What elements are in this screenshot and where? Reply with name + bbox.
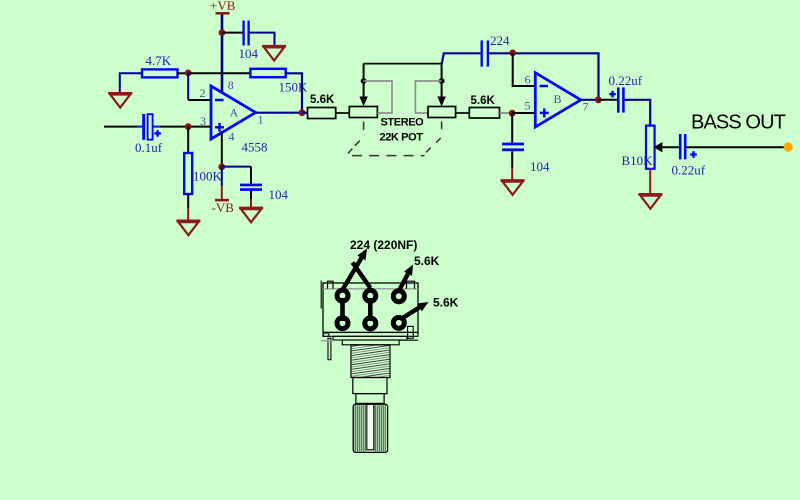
pot terminal lug top-left (337, 290, 348, 301)
pot terminal lug bottom-middle (365, 318, 376, 329)
node junction J7 (509, 50, 516, 57)
wire gray loop P2 (415, 81, 441, 113)
op-amp A minus symbol (215, 99, 224, 102)
svg-text:22K POT: 22K POT (380, 132, 424, 144)
capacitor C5 224 (481, 40, 490, 66)
ground for R1 (108, 93, 132, 107)
wire C4 to ground (511, 151, 513, 180)
svg-text:100K: 100K (193, 169, 223, 184)
pot drawing crimp band (323, 288, 418, 290)
op-amp U1A triangle (211, 86, 256, 139)
power -VB label (212, 200, 235, 215)
svg-text:104: 104 (530, 159, 550, 174)
wire gray stub R5 to J6 (500, 112, 512, 114)
wire R1 left to ground (120, 73, 142, 92)
wire op-amp B output (581, 99, 599, 101)
svg-text:4: 4 (229, 130, 235, 144)
svg-text:5.6K: 5.6K (471, 95, 496, 107)
pot drawing top tabs (328, 281, 415, 288)
wire gray loop P1 (364, 81, 392, 113)
label 224 (220NF) (350, 238, 417, 252)
svg-text:BASS OUT: BASS OUT (691, 111, 786, 133)
svg-text:B: B (554, 92, 562, 106)
pot drawing knurled shaft (353, 404, 387, 452)
power +VB bar (216, 12, 230, 15)
wire op-amp A output (256, 112, 302, 114)
pin 3 label (200, 114, 206, 128)
pin 6 label (525, 73, 531, 87)
pot terminal lug bottom-left (337, 318, 348, 329)
wire C5 to corner (489, 53, 598, 100)
svg-text:0.22uf: 0.22uf (609, 73, 643, 88)
wire J4 to C3 (222, 167, 251, 184)
ground for R3 (176, 221, 200, 235)
C2 plus symbol (154, 130, 161, 137)
wire J1 to C1 (222, 32, 243, 34)
pot drawing threaded bushing (351, 341, 391, 384)
value label 150K (279, 80, 309, 95)
pot terminal lug top-right (393, 291, 404, 302)
C6 plus symbol (609, 91, 616, 98)
wire J6 down to C4 (511, 113, 513, 143)
potentiometer P1 body (349, 107, 377, 118)
wire C7 to output terminal (687, 146, 789, 148)
capacitor C1 104 (242, 21, 249, 46)
node junction J2 (185, 70, 192, 77)
node junction J5 (299, 109, 306, 116)
svg-text:7: 7 (583, 100, 589, 114)
value label B10K (622, 153, 654, 168)
value label 0.1uf (135, 140, 163, 155)
capacitor C4 104 (502, 143, 524, 152)
svg-text:0.1uf: 0.1uf (135, 140, 163, 155)
node junction J4 (218, 163, 225, 170)
wire C3 to ground (250, 191, 252, 208)
node wiper junction P2 (439, 78, 445, 84)
value label 0.22uf for C6 (609, 73, 643, 88)
pot drawing body (323, 283, 418, 332)
node junction J8 (595, 96, 602, 103)
pot drawing stub right (399, 339, 418, 341)
value label 104 for C1 (239, 46, 259, 61)
ground for C1 (262, 46, 286, 60)
wire J2 to R2 150K (188, 72, 250, 74)
value label 104 for C4 (530, 159, 550, 174)
pot drawing shaft step (356, 394, 384, 404)
label 5.6K lower (433, 296, 459, 310)
svg-text:104: 104 (239, 46, 259, 61)
potentiometer P2 wiper arrow (437, 64, 445, 107)
potentiometer P2 body (428, 107, 456, 118)
label BASS OUT (691, 111, 786, 133)
pot drawing anti-rotation pin (328, 338, 331, 359)
op-amp A plus symbol (215, 123, 224, 132)
power -VB bar (215, 199, 229, 202)
pot terminal bars (343, 298, 371, 321)
arrow to 5.6K from top-right lug (399, 265, 413, 291)
op-amp U1B triangle (535, 73, 581, 127)
resistor R3 100K (184, 153, 192, 194)
wire +VB to pin 8 of U1 (221, 15, 224, 93)
label 22K POT (380, 132, 424, 144)
ground for C3 (239, 208, 263, 222)
resistor R5 5.6K (469, 108, 499, 119)
svg-text:5.6K: 5.6K (433, 296, 459, 310)
wire feedback diagonal from bus (442, 53, 481, 64)
pot drawing side tab line (320, 281, 322, 309)
wire J5 to R4 (302, 112, 308, 114)
wire C6 to pot P3 (625, 100, 651, 126)
wire wiper bus (364, 63, 442, 65)
potentiometer P1 wiper arrow (359, 64, 367, 107)
value label 104 for C3 (269, 187, 289, 202)
value label 0.22uf for C7 (672, 163, 706, 178)
capacitor C3 104 (240, 184, 262, 191)
pot drawing neck (342, 340, 399, 345)
capacitor C7 0.22uf (679, 134, 687, 159)
wire pin 4 down (221, 133, 223, 167)
capacitor C2 0.1uf (142, 114, 152, 140)
svg-text:A: A (230, 106, 239, 120)
resistor R2 150K (250, 69, 285, 77)
op-amp B minus symbol (540, 85, 549, 88)
wire J2 down to pin 2 (188, 73, 211, 100)
svg-text:8: 8 (228, 78, 234, 92)
IC label 4558 (242, 140, 268, 155)
pot drawing shaft slot (367, 404, 374, 449)
svg-text:5.6K: 5.6K (414, 254, 440, 268)
svg-text:5: 5 (525, 99, 531, 113)
pot terminal lug bottom-right (393, 317, 404, 328)
capacitor C6 0.22uf (617, 87, 625, 112)
resistor R4 5.6K (308, 108, 336, 119)
wire C2 to pin 3 (153, 126, 211, 128)
value label 4.7K (146, 53, 172, 68)
svg-text:4558: 4558 (242, 140, 268, 155)
label 5.6K upper (414, 254, 440, 268)
arrow to 224 label from top-left lug (343, 249, 367, 290)
wire input left (104, 126, 142, 128)
pin 2 label (200, 86, 206, 100)
label STEREO (381, 117, 425, 129)
node wiper junction P1 (361, 78, 367, 84)
potentiometer P3 B10K body (646, 126, 655, 169)
svg-text:224: 224 (490, 33, 510, 48)
ground for P3 (638, 194, 662, 208)
svg-text:-VB: -VB (212, 200, 235, 215)
wire P2 to R5 (456, 112, 470, 114)
wire J7 down to pin 6 (513, 53, 536, 86)
power +VB label (210, 0, 236, 13)
pin 5 label (525, 99, 531, 113)
wire J3 down to R3 (187, 127, 189, 153)
svg-text:4.7K: 4.7K (146, 53, 172, 68)
value label 100K (193, 169, 223, 184)
wire J8 to C6 (599, 99, 618, 101)
svg-text:1: 1 (258, 113, 264, 127)
resistor R1 4.7K (142, 69, 178, 77)
svg-text:+VB: +VB (210, 0, 236, 13)
pin 4 label (229, 130, 235, 144)
dashed outline of stereo pot (348, 122, 442, 156)
node junction J1 (219, 29, 226, 36)
wire C1 to ground (250, 33, 275, 46)
op-amp A letter (230, 106, 239, 120)
pin 8 label (228, 78, 234, 92)
svg-text:2: 2 (200, 86, 206, 100)
value label 224 (490, 33, 510, 48)
pot drawing gray stub left (321, 340, 333, 342)
potentiometer P3 wiper arrow (654, 142, 679, 152)
pot drawing flange (323, 326, 418, 340)
wire J6 to pin 5 (512, 112, 535, 114)
wire R1 right to J2 (178, 72, 189, 74)
svg-text:B10K: B10K (622, 153, 654, 168)
wire R3 to ground (187, 194, 189, 221)
op-amp B letter (554, 92, 562, 106)
C7 plus symbol (690, 151, 697, 158)
wire R2 right down to J5 (286, 73, 302, 112)
svg-text:224 (220NF): 224 (220NF) (350, 238, 417, 252)
pin 1 label (258, 113, 264, 127)
arrow to 224 label from top-middle lug (353, 263, 371, 289)
pin 7 label (583, 100, 589, 114)
arrow to 5.6K from bottom-right lug (401, 302, 429, 319)
op-amp B plus symbol (540, 108, 549, 117)
svg-text:150K: 150K (279, 80, 309, 95)
svg-text:STEREO: STEREO (381, 117, 425, 129)
pot terminal lug top-middle (365, 290, 376, 301)
value label 5.6K right (471, 95, 496, 107)
ground for C4 (501, 181, 525, 195)
wire R4 to pot P1 (336, 112, 350, 114)
svg-text:0.22uf: 0.22uf (672, 163, 706, 178)
svg-text:104: 104 (269, 187, 289, 202)
pot drawing shaft upper (353, 378, 387, 394)
wire J4 to -VB (221, 167, 223, 199)
wire P3 to ground (649, 169, 651, 194)
node junction J3 (185, 123, 192, 130)
node junction J6 (509, 110, 516, 117)
node output terminal (784, 142, 793, 151)
svg-text:6: 6 (525, 73, 531, 87)
svg-text:5.6K: 5.6K (310, 94, 335, 106)
value label 5.6K left (310, 94, 335, 106)
